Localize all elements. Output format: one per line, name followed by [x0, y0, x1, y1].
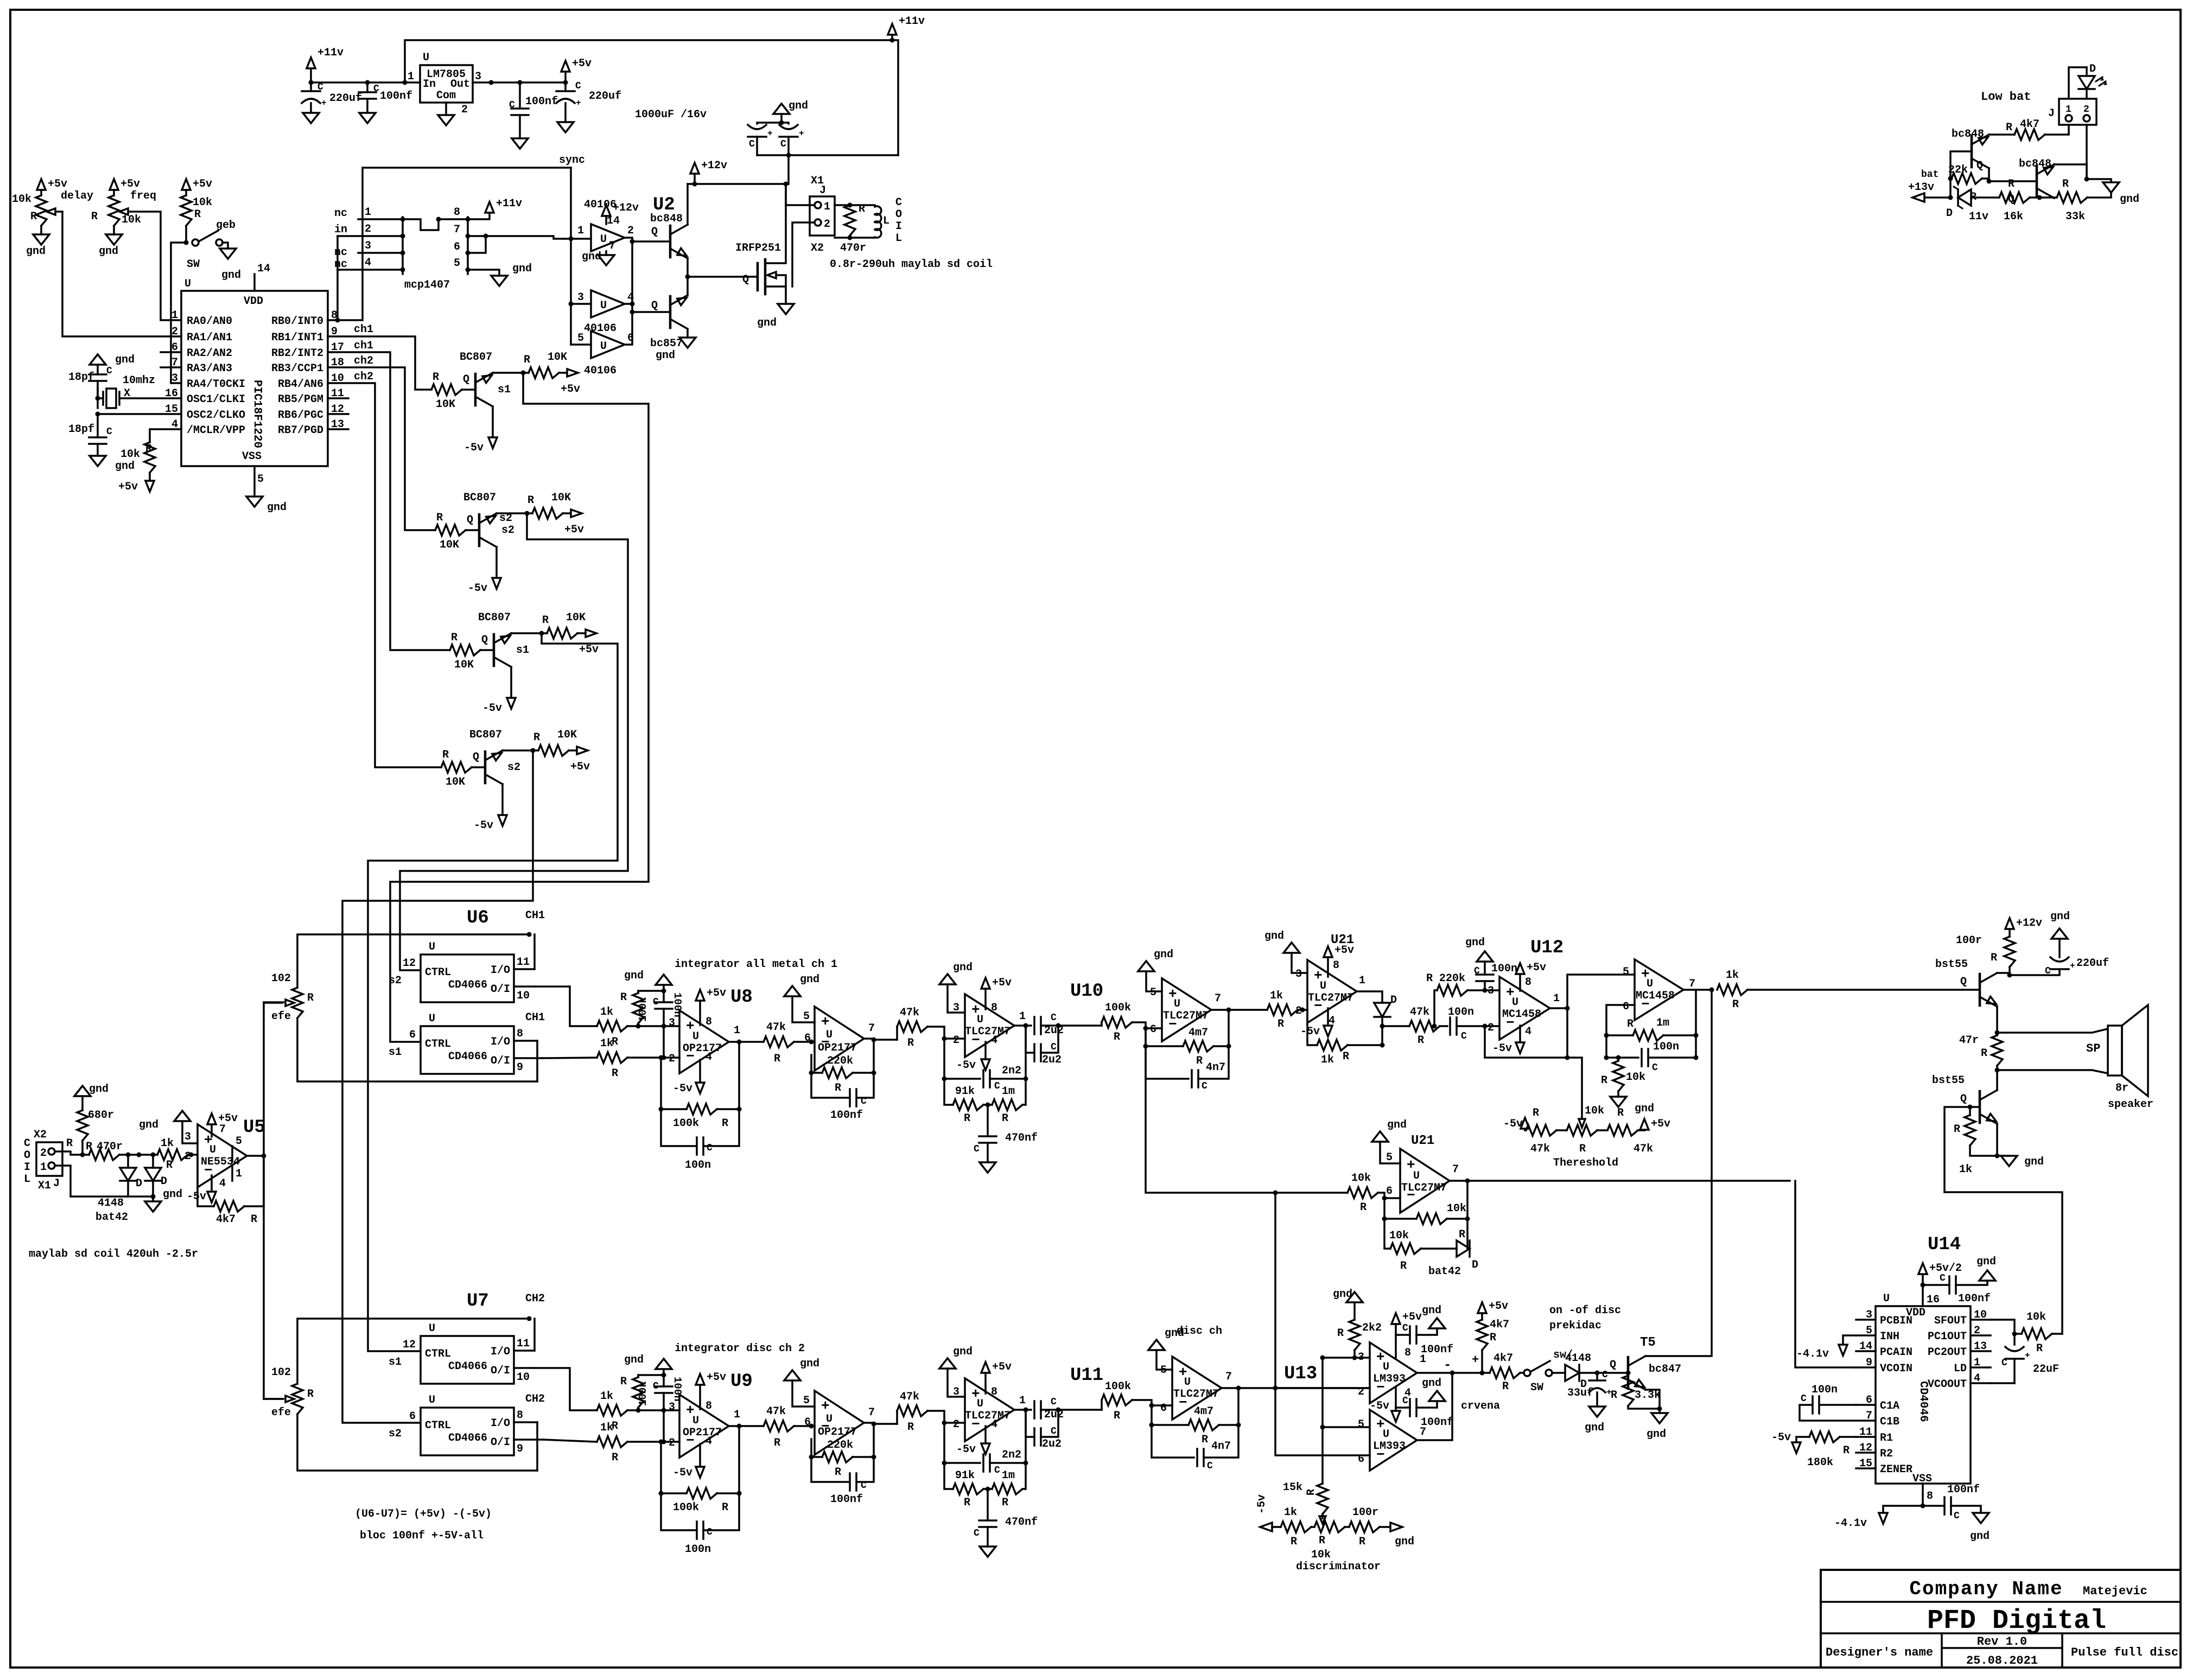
svg-text:1: 1	[171, 309, 178, 322]
svg-text:+: +	[821, 1014, 830, 1030]
svg-text:R: R	[964, 1497, 970, 1509]
svg-text:R: R	[835, 1466, 841, 1479]
U7 upper pin 11	[514, 1350, 535, 1352]
svg-text:18pf: 18pf	[68, 371, 94, 384]
svg-text:O/I: O/I	[491, 1055, 510, 1067]
mcp1407 pin 5 to ground	[468, 270, 499, 276]
svg-text:-5v: -5v	[464, 442, 484, 454]
svg-text:C: C	[317, 82, 323, 93]
wire 1k A to opamp ch2	[627, 1409, 679, 1411]
ground arrow at bias ch2	[663, 1369, 665, 1375]
svg-text:4: 4	[1525, 1026, 1531, 1038]
wire t5 collector to audio net	[1645, 990, 1712, 1356]
U6 upper pin 11	[514, 968, 535, 970]
capacitor C 4n7 feedback disc tlc	[1152, 1425, 1194, 1458]
svg-text:4: 4	[219, 1178, 226, 1190]
svg-text:+11v: +11v	[317, 47, 344, 59]
speaker SP	[2108, 1026, 2122, 1076]
svg-text:+5v: +5v	[48, 178, 67, 190]
wire coil pin2 to node	[55, 1151, 82, 1155]
svg-text:1: 1	[2065, 104, 2071, 115]
svg-text:U: U	[1174, 998, 1180, 1010]
ground at clamp diodes	[152, 1197, 154, 1201]
svg-text:7: 7	[868, 1407, 875, 1419]
svg-text:220k: 220k	[1439, 972, 1465, 985]
battery terminal arrow +13v	[1912, 193, 1924, 202]
svg-text:C: C	[1051, 1397, 1057, 1408]
svg-text:SW: SW	[187, 258, 200, 271]
svg-text:U: U	[209, 1144, 216, 1156]
svg-text:U9: U9	[730, 1371, 753, 1392]
power +11v arrow at mcp1407	[485, 202, 494, 213]
svg-text:4k7: 4k7	[1493, 1352, 1513, 1365]
wire junction up to second transistor base	[2038, 197, 2041, 198]
capacitor C 100nf decouple upper	[1396, 1334, 1410, 1336]
PIC stub pin 13	[328, 428, 348, 430]
svg-text:R: R	[1533, 1107, 1539, 1119]
svg-text:10k: 10k	[1311, 1549, 1331, 1561]
ground below bc857	[679, 338, 696, 348]
svg-text:gnd: gnd	[1585, 1422, 1604, 1434]
svg-text:C: C	[1474, 966, 1480, 977]
title block vertical divider right	[2061, 1633, 2063, 1668]
wire mc1458 first output up to second plus	[1567, 975, 1635, 1008]
wire emitter to -5v stage 3	[510, 667, 512, 698]
svg-text:4k7: 4k7	[1490, 1319, 1509, 1331]
zener diode D 11v	[1958, 189, 1971, 206]
resistor R 100r collector	[2005, 918, 2014, 929]
svg-text:10k: 10k	[120, 448, 140, 461]
wire freq pot to ground	[113, 226, 115, 234]
svg-text:D: D	[1472, 1259, 1478, 1271]
svg-text:U6: U6	[467, 908, 489, 928]
svg-text:1k: 1k	[161, 1137, 174, 1150]
svg-text:2: 2	[2083, 104, 2089, 115]
capacitor C 220uf output stage	[2010, 969, 2060, 975]
svg-text:-5v: -5v	[673, 1467, 692, 1479]
svg-text:Com: Com	[436, 90, 456, 102]
PIC stub pin 12	[328, 413, 348, 415]
resistor R 100k feedback ch1	[738, 1042, 740, 1109]
resistor R 10K collector stage 1	[529, 367, 559, 378]
resistor R 15k discriminator	[1321, 1427, 1324, 1484]
resistor R 4m7 feedback tlc2	[1146, 1028, 1183, 1046]
svg-text:R: R	[774, 1053, 780, 1065]
wire mc1458 first output node	[1550, 1007, 1567, 1009]
diode D U21 output	[1374, 1003, 1390, 1017]
capacitor C 22uF vcoout	[2013, 1334, 2016, 1345]
svg-text:33uf: 33uf	[1567, 1387, 1593, 1399]
svg-text:gnd: gnd	[757, 317, 777, 329]
svg-text:1m: 1m	[1656, 1017, 1669, 1029]
transistor Q bc848 low bat first	[1971, 136, 1973, 167]
ground below freq pot	[106, 234, 122, 245]
op-amp U TLC27M2 ch2	[965, 1378, 1014, 1441]
ground at t5 emitter	[1651, 1413, 1668, 1423]
wire s1 stage1 to U6 ctrl pin6	[390, 373, 649, 1042]
capacitor C 100n feedback mc1458	[1606, 1057, 1638, 1059]
svg-text:ch2: ch2	[354, 371, 373, 383]
power +12v arrow on driver transistor rail	[690, 163, 699, 174]
microcontroller U PIC18F1220 body	[181, 291, 328, 466]
svg-text:SFOUT: SFOUT	[1934, 1315, 1967, 1327]
svg-text:mcp1407: mcp1407	[404, 279, 450, 291]
ground below 470nf ch2	[980, 1547, 996, 1557]
svg-text:+5v: +5v	[992, 1361, 1012, 1373]
svg-text:R: R	[612, 1452, 618, 1464]
svg-text:+12v: +12v	[701, 160, 727, 172]
transistor Q BC807 stage 2	[466, 529, 479, 531]
svg-text:I: I	[895, 220, 902, 233]
power +5v arrow for geb pot	[182, 179, 190, 190]
svg-text:1k: 1k	[1284, 1506, 1297, 1519]
gate U2 40106 triangle 1	[591, 224, 625, 251]
ground at second opamp pin5 ch2	[792, 1380, 815, 1407]
svg-text:18pf: 18pf	[68, 423, 94, 436]
resistor R 680r to ground	[74, 1086, 91, 1096]
resistor R 10k sfout	[2022, 1328, 2052, 1339]
wire 47k to tlc input ch2	[927, 1411, 965, 1423]
wire second opamp output ch2	[864, 1423, 897, 1424]
svg-text:RA2/AN2: RA2/AN2	[187, 347, 232, 360]
svg-text:6: 6	[804, 1416, 811, 1429]
svg-text:1m: 1m	[1002, 1469, 1015, 1482]
svg-text:C: C	[707, 1527, 713, 1538]
svg-text:U: U	[429, 1322, 435, 1335]
capacitor C 33uf to ground	[1596, 1373, 1598, 1380]
mcp1407 pin 7 output	[468, 235, 486, 237]
svg-text:U8: U8	[730, 987, 753, 1008]
wire U5 output to efe pot CH1	[264, 1002, 283, 1156]
svg-text:R: R	[1418, 1034, 1424, 1047]
svg-text:25.08.2021: 25.08.2021	[1966, 1654, 2038, 1668]
capacitor C 100n c1a c1b	[1820, 1404, 1856, 1406]
svg-text:-5v: -5v	[474, 819, 493, 832]
svg-text:R: R	[436, 512, 443, 524]
wire tlc pin3 to ground ch1	[948, 984, 965, 1013]
wire tlc2 output node ch1	[1211, 1009, 1229, 1011]
svg-text:R: R	[433, 371, 439, 384]
wire low bat right node to gnd	[2087, 179, 2111, 182]
svg-text:CTRL: CTRL	[425, 1348, 451, 1360]
svg-text:1: 1	[408, 71, 414, 83]
ground below U14 vss cap	[1973, 1513, 1989, 1523]
wire s1 stage3 to U7 ctrl pin12	[368, 633, 618, 1351]
svg-text:10mhz: 10mhz	[123, 374, 155, 387]
svg-text:gnd: gnd	[89, 1083, 109, 1096]
potentiometer R 102 efe CH1	[292, 988, 303, 1018]
wire mc1458 first feedback loop	[1485, 1008, 1567, 1058]
svg-text:ch1: ch1	[354, 340, 373, 352]
svg-text:2k2: 2k2	[1362, 1322, 1382, 1334]
svg-text:gnd: gnd	[789, 100, 808, 112]
svg-text:RB2/INT2: RB2/INT2	[271, 347, 323, 360]
svg-text:bst55: bst55	[1932, 1074, 1965, 1087]
capacitor C 100nf decouple lower	[1396, 1407, 1410, 1409]
svg-text:s1: s1	[389, 1046, 402, 1059]
svg-text:U14: U14	[1928, 1234, 1961, 1255]
wire gate outputs to bc848 base	[632, 240, 670, 243]
svg-text:+: +	[2070, 961, 2075, 971]
svg-text:470nf: 470nf	[1005, 1132, 1038, 1144]
svg-text:TLC27M7: TLC27M7	[965, 1410, 1010, 1422]
svg-text:10: 10	[517, 990, 530, 1002]
svg-text:gnd: gnd	[624, 970, 644, 982]
capacitor C 1000uF left	[748, 136, 766, 138]
wire low bat pin2 down	[2086, 125, 2088, 179]
ground below delay pot	[33, 234, 49, 245]
wire U21 first output to diode	[1357, 991, 1382, 1003]
svg-text:1k: 1k	[1270, 990, 1283, 1002]
svg-text:1m: 1m	[1002, 1085, 1015, 1098]
resistor R 47k threshold right	[1597, 1129, 1607, 1131]
wire tlc2 output to 1k U21	[1229, 1009, 1267, 1011]
mcp1407 pin 6 jumper	[468, 236, 486, 253]
svg-text:CD4066: CD4066	[448, 979, 487, 991]
svg-text:2: 2	[1295, 1005, 1302, 1017]
resistor R 470r series	[82, 1154, 89, 1156]
svg-text:680r: 680r	[88, 1109, 114, 1122]
svg-text:220k: 220k	[827, 1439, 853, 1452]
svg-text:C: C	[2001, 1358, 2007, 1369]
svg-text:100n: 100n	[671, 1377, 683, 1402]
svg-text:40106: 40106	[584, 365, 617, 377]
svg-text:LM393: LM393	[1373, 1440, 1406, 1453]
svg-text:C: C	[1051, 1042, 1057, 1053]
ground below output 100nf	[512, 138, 528, 149]
U7 lower pin 8	[514, 1421, 537, 1423]
svg-text:CD4066: CD4066	[448, 1051, 487, 1063]
svg-text:180k: 180k	[1807, 1456, 1833, 1469]
terminal +5v stage 3	[577, 632, 584, 634]
svg-text:bc848: bc848	[1952, 128, 1984, 141]
svg-text:bat42: bat42	[1428, 1265, 1461, 1278]
svg-text:I/O: I/O	[491, 1417, 510, 1430]
svg-text:100nf: 100nf	[830, 1493, 863, 1506]
svg-text:6: 6	[409, 1410, 416, 1423]
svg-text:16: 16	[1927, 1294, 1940, 1306]
svg-text:L: L	[24, 1173, 30, 1186]
svg-text:+11v: +11v	[496, 198, 522, 210]
PIC pin 14 VDD stub	[253, 274, 256, 291]
svg-text:C: C	[707, 1143, 713, 1154]
ground at second opamp pin5 ch1	[792, 996, 815, 1022]
svg-text:gnd: gnd	[1333, 1288, 1352, 1301]
svg-text:D: D	[136, 1178, 142, 1190]
svg-text:R: R	[145, 443, 152, 455]
power -5v first opamp ch2	[699, 1444, 701, 1467]
svg-text:crvena: crvena	[1461, 1400, 1500, 1412]
svg-text:Rev 1.0: Rev 1.0	[1977, 1635, 2027, 1649]
svg-text:+5v: +5v	[572, 58, 592, 70]
svg-text:PIC18F1220: PIC18F1220	[251, 380, 263, 448]
capacitor C 100nf input	[366, 82, 368, 92]
capacitor C 2u2 lower ch2	[1026, 1410, 1034, 1437]
wire audio to bst55 base	[1747, 989, 1962, 991]
svg-text:10k: 10k	[1447, 1202, 1466, 1215]
svg-text:15k: 15k	[1283, 1481, 1302, 1494]
svg-text:+5v: +5v	[570, 761, 590, 773]
resistor R 1k input B ch2	[597, 1436, 627, 1447]
ground above 220uf output	[2051, 928, 2068, 939]
wire disc tlc output node	[1222, 1387, 1238, 1389]
svg-text:-5v: -5v	[956, 1059, 976, 1072]
svg-text:integrator all metal ch 1: integrator all metal ch 1	[675, 958, 837, 971]
power -5v arrow U5 pin4	[211, 1175, 213, 1192]
resistor R 100k bias ch1	[633, 993, 644, 1023]
wire efe1 top bus	[297, 934, 529, 988]
svg-text:U: U	[692, 1415, 699, 1427]
svg-text:4148: 4148	[1565, 1352, 1591, 1365]
svg-text:s2: s2	[389, 1428, 402, 1440]
svg-text:O/I: O/I	[491, 983, 510, 996]
svg-text:NE5534: NE5534	[201, 1156, 240, 1168]
svg-text:TLC27M7: TLC27M7	[1308, 992, 1353, 1004]
svg-text:J: J	[819, 184, 826, 197]
svg-text:5: 5	[1386, 1151, 1393, 1164]
svg-text:47k: 47k	[1530, 1143, 1550, 1155]
svg-text:R: R	[964, 1112, 970, 1125]
power +5v arrow for delay pot	[37, 179, 46, 190]
svg-text:gnd: gnd	[139, 1119, 158, 1131]
wire U6 pin10 to 1k input A	[535, 987, 597, 1026]
svg-text:2: 2	[669, 1053, 675, 1065]
wire tlc output node ch2	[1014, 1409, 1031, 1411]
power +5v first opamp ch2	[699, 1385, 701, 1409]
resistor R 100k bias ch2	[633, 1377, 644, 1408]
svg-text:3.3k: 3.3k	[1635, 1389, 1661, 1402]
svg-text:-4.1v: -4.1v	[1834, 1517, 1867, 1530]
svg-text:X2: X2	[811, 242, 824, 254]
ground low bat	[2103, 182, 2119, 193]
op-amp U9 OP2177 first	[679, 1395, 729, 1458]
svg-text:C: C	[653, 997, 659, 1008]
potentiometer R 10k delay	[36, 195, 47, 226]
svg-text:gnd: gnd	[1647, 1428, 1666, 1441]
PIC stub pin 6 nc	[161, 351, 181, 353]
svg-text:I/O: I/O	[491, 1346, 510, 1358]
svg-text:R: R	[1611, 1389, 1617, 1402]
svg-text:4m7: 4m7	[1189, 1027, 1208, 1039]
svg-text:ZENER: ZENER	[1880, 1463, 1912, 1476]
ground at PIC VSS	[246, 497, 263, 507]
switch SW geb	[192, 239, 199, 246]
mcp1407 top jumper with notch	[403, 219, 468, 230]
svg-text:U: U	[826, 1029, 832, 1041]
resistor R 47r	[1992, 1035, 2003, 1066]
svg-text:freq: freq	[130, 190, 156, 202]
title block divider line 2	[1821, 1632, 2181, 1634]
power -5v u13	[1395, 1387, 1397, 1411]
capacitor C 100n to gnd at mc1458 plus	[1484, 981, 1486, 990]
ground at mcp1407 pin 5	[491, 276, 507, 286]
svg-text:U: U	[1413, 1170, 1420, 1182]
svg-text:OP2177: OP2177	[683, 1042, 722, 1055]
svg-text:91k: 91k	[955, 1085, 975, 1098]
svg-text:100n: 100n	[1653, 1041, 1679, 1053]
svg-text:10k: 10k	[2026, 1311, 2046, 1323]
wire mcp1407 input from PIC RB0 sync net	[328, 168, 571, 320]
svg-text:7: 7	[609, 240, 615, 252]
svg-text:C: C	[24, 1137, 30, 1150]
wire efe2 top bus	[297, 1319, 529, 1384]
svg-text:4k7: 4k7	[216, 1213, 236, 1226]
svg-text:100k: 100k	[1105, 1380, 1131, 1393]
svg-text:-5v: -5v	[482, 702, 502, 715]
wire bst55 lower collector up	[1996, 1070, 1998, 1090]
svg-text:C: C	[1652, 1062, 1658, 1073]
svg-text:R: R	[835, 1082, 841, 1094]
svg-text:22k: 22k	[1948, 164, 1968, 176]
wire mosfet drain to X1 pin1	[786, 204, 815, 206]
power +5v U21 first	[1327, 957, 1329, 977]
resistor R 1m ch1	[983, 1104, 992, 1106]
svg-text:R: R	[612, 1067, 618, 1080]
svg-text:Designer's name: Designer's name	[1826, 1646, 1933, 1659]
capacitor C 100nf feedback second ch1	[857, 1073, 874, 1098]
svg-text:R: R	[1278, 1018, 1284, 1030]
wire U5 pin3 to ground	[182, 1121, 198, 1143]
svg-text:R: R	[1459, 1229, 1465, 1241]
resistor R 1k input A ch1	[597, 1021, 627, 1032]
svg-text:R: R	[442, 749, 449, 761]
svg-text:s1: s1	[516, 644, 529, 657]
svg-text:Q: Q	[463, 373, 469, 386]
svg-text:7: 7	[454, 224, 460, 236]
svg-text:6: 6	[1386, 1185, 1393, 1198]
wire emitters join to mosfet gate	[687, 258, 689, 295]
wire regulator com pin to ground	[445, 103, 447, 115]
svg-text:U: U	[1512, 996, 1518, 1009]
svg-text:R: R	[1359, 1536, 1365, 1548]
svg-text:+: +	[1472, 1353, 1479, 1367]
svg-text:gnd: gnd	[800, 1358, 819, 1370]
wire mcp1407 in pin 2 drop	[336, 236, 339, 320]
wire 1k A to opamp ch1	[627, 1025, 679, 1027]
wire second opamp output ch1	[864, 1039, 897, 1040]
title block vertical divider left	[1941, 1633, 1943, 1668]
svg-text:2: 2	[461, 104, 468, 116]
terminal -5v threshold left	[1521, 1118, 1529, 1129]
ground below 33uf	[1589, 1407, 1605, 1417]
resistor R 220k feedback second ch1	[853, 1040, 874, 1073]
svg-text:2: 2	[171, 326, 178, 338]
svg-text:speaker: speaker	[2108, 1098, 2153, 1111]
power -5v arrow stage 2	[492, 578, 501, 589]
svg-text:bst55: bst55	[1935, 958, 1968, 971]
svg-text:R: R	[1502, 1380, 1509, 1393]
svg-text:8: 8	[1927, 1490, 1933, 1503]
svg-text:R: R	[1954, 1123, 1960, 1136]
svg-text:5: 5	[1623, 966, 1629, 978]
svg-text:bc848: bc848	[2019, 158, 2051, 170]
capacitor C 100nf U14 vdd	[1923, 1284, 1949, 1286]
wire X1 pin2 to mosfet source	[792, 222, 815, 287]
capacitor C 4n7 feedback tlc2	[1146, 1046, 1189, 1079]
svg-text:RB1/INT1: RB1/INT1	[271, 332, 323, 344]
svg-text:470r: 470r	[840, 242, 866, 254]
svg-text:1: 1	[1019, 1010, 1026, 1023]
svg-text:100nf: 100nf	[1421, 1416, 1453, 1429]
svg-text:8: 8	[517, 1409, 523, 1422]
svg-text:8: 8	[1404, 1347, 1411, 1359]
terminal gnd discriminator	[1380, 1526, 1390, 1528]
title block rev/date divider	[1942, 1647, 2062, 1649]
resistor R 10k feedback u21 lower	[1384, 1198, 1416, 1219]
svg-text:100nf: 100nf	[525, 96, 558, 108]
wire sync vertical to gate inputs	[570, 168, 572, 345]
svg-text:8: 8	[517, 1028, 523, 1040]
